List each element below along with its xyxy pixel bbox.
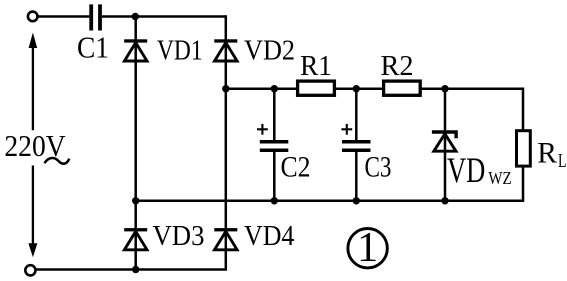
diode VD3: [124, 228, 147, 250]
node: dot VD3 anode to bottom AC rail: [132, 266, 139, 273]
wire: top terminal to C1: [38, 15, 90, 18]
wire: R1 to R2: [336, 87, 384, 90]
figure number badge (1): [348, 225, 387, 271]
node: dot VD1/VD3 junction on bottom rail: [132, 197, 139, 204]
polarity + of C3: [341, 124, 352, 135]
svg-text:C1: C1: [77, 30, 109, 65]
AC tilde mark: [45, 158, 70, 164]
wire: bottom AC rail: [36, 268, 227, 271]
node: dot C3 top connection: [353, 85, 360, 92]
wire: zener VDwz branch: [444, 89, 447, 201]
svg-text:WZ: WZ: [488, 168, 511, 188]
svg-text:C2: C2: [281, 151, 311, 184]
svg-text:C3: C3: [365, 151, 392, 184]
resistor RL: [517, 131, 531, 166]
resistor R1: [298, 81, 335, 95]
svg-text:VD: VD: [447, 150, 485, 190]
node A: junction dot on top wire: [132, 13, 139, 20]
svg-text:VD4: VD4: [244, 221, 294, 252]
svg-text:1: 1: [357, 225, 378, 271]
svg-text:L: L: [558, 150, 567, 172]
svg-text:VD2: VD2: [244, 35, 295, 66]
wire: positive rail from VD2 anode to R1: [226, 87, 297, 90]
label RL: [537, 137, 566, 172]
label VDwz: [447, 150, 512, 190]
svg-text:VD1: VD1: [157, 35, 203, 66]
svg-text:220V: 220V: [4, 128, 66, 163]
arrow up (AC source top): [29, 33, 38, 131]
wire: RL bottom lead: [522, 166, 525, 201]
node: dot C2 top connection: [271, 85, 278, 92]
wire: RL top lead: [522, 88, 525, 131]
terminal J1 (top AC input): [28, 12, 38, 22]
arrow down (AC source bottom): [28, 166, 37, 258]
node: dot VDwz bottom connection: [441, 197, 448, 204]
node: dot at VD2 anode on positive rail: [222, 85, 229, 92]
wire: C1 to corner above VD2: [102, 15, 226, 18]
wire: C3 top lead: [355, 89, 358, 141]
capacitor C2: [260, 140, 289, 152]
capacitor C1: [89, 4, 102, 30]
wire: C2 top lead: [273, 89, 276, 141]
capacitor C3: [342, 140, 371, 152]
wire: R2 to corner above RL: [420, 87, 523, 90]
terminal J2 (bottom AC input): [25, 265, 35, 275]
wire: VD2/VD4 column: [225, 15, 228, 269]
wire: C2 bottom lead: [273, 152, 276, 201]
wire: C3 bottom lead: [355, 152, 358, 201]
wire: bottom output rail: [136, 200, 525, 203]
node: dot C2 bottom connection: [271, 197, 278, 204]
svg-text:R: R: [537, 137, 557, 169]
wire: VD1/VD3 column: [134, 17, 137, 270]
svg-text:R2: R2: [381, 50, 414, 82]
diode VD4: [214, 228, 237, 250]
svg-text:R1: R1: [300, 50, 332, 82]
node: dot VDwz top connection: [441, 85, 448, 92]
node: dot C3 bottom connection: [353, 197, 360, 204]
resistor R2: [384, 81, 421, 95]
diode VD1: [124, 39, 147, 61]
zener diode VDwz: [432, 132, 456, 151]
diode VD2: [214, 39, 237, 61]
polarity + of C2: [257, 124, 268, 135]
svg-text:VD3: VD3: [153, 221, 205, 252]
